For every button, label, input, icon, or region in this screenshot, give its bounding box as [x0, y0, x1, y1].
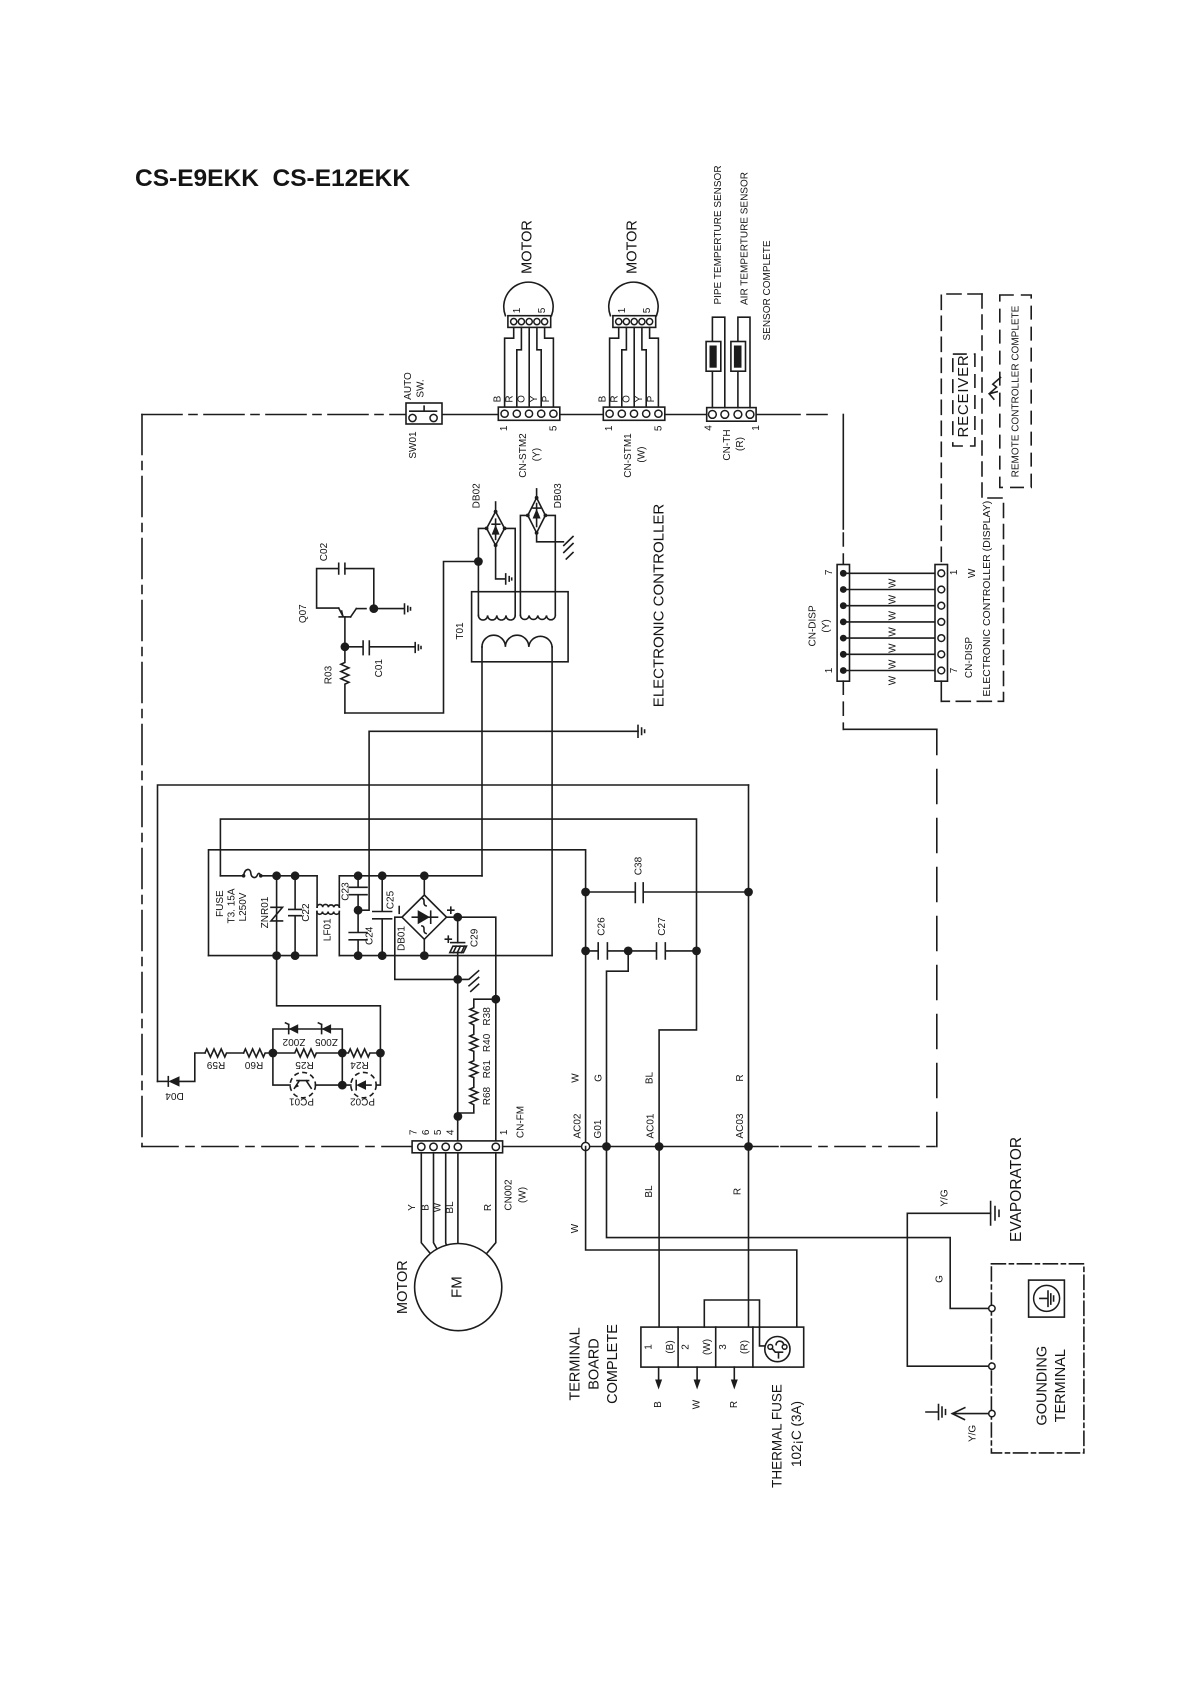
svg-text:R61: R61	[482, 1060, 493, 1079]
receiver feed dashed line from border	[842, 415, 844, 530]
wire C29 node down to CN-FM pin4	[457, 979, 459, 1141]
wire R (AC03 line) horizontal	[158, 785, 749, 1081]
earth symbol in square	[1029, 1280, 1065, 1317]
svg-text:5: 5	[433, 1129, 444, 1135]
node C27 right	[692, 947, 701, 956]
motor wires to CN-STM2	[505, 327, 554, 407]
svg-text:ELECTRONIC CONTROLLER (DISPLAY: ELECTRONIC CONTROLLER (DISPLAY)	[981, 501, 993, 697]
svg-text:G: G	[934, 1275, 945, 1283]
node mid (Z005/R24/PC01-PC02)	[338, 1049, 347, 1058]
svg-text:5: 5	[537, 307, 548, 313]
node C38 left	[581, 888, 590, 897]
wire loop pipe sensor	[712, 317, 724, 407]
bridge rectifier DB01	[402, 895, 447, 939]
svg-text:EVAPORATOR: EVAPORATOR	[1008, 1137, 1025, 1242]
node C25 bottom	[378, 951, 387, 960]
motor (stepper, above CN-STM2)	[504, 282, 553, 327]
dashed below CN-DISP (Y)	[842, 681, 844, 729]
line rail B	[339, 875, 482, 877]
terminal G01	[602, 1142, 611, 1151]
svg-text:CN-DISP: CN-DISP	[807, 605, 818, 646]
svg-text:DB03: DB03	[553, 483, 564, 508]
resistor R60	[244, 1049, 273, 1057]
svg-text:W: W	[888, 610, 899, 620]
svg-text:CN-STM1: CN-STM1	[623, 433, 634, 478]
Y/G wire with arrow to earth	[952, 1408, 988, 1420]
transformer T01	[472, 592, 568, 662]
svg-text:W: W	[433, 1202, 444, 1212]
svg-text:O: O	[517, 395, 528, 403]
DB02 top stub	[495, 502, 497, 512]
DB03 bottom to chassis	[537, 533, 564, 542]
svg-text:R03: R03	[324, 665, 335, 684]
svg-text:Y/G: Y/G	[968, 1425, 979, 1442]
electronic controller (display) dashed outline	[941, 294, 982, 565]
connector CN-TH	[707, 408, 756, 422]
fuse F01 (T3.15A L250V)	[242, 869, 263, 877]
arrow terminal 2	[694, 1367, 701, 1389]
wire W below bus to thermal fuse	[586, 1147, 797, 1346]
capacitor C26	[586, 943, 629, 959]
receiver dashed box	[953, 354, 975, 446]
svg-text:2: 2	[681, 1344, 692, 1350]
svg-text:7: 7	[409, 1129, 420, 1135]
ground (evaporator)	[991, 1202, 999, 1226]
wire ZNR bottom to detector network	[277, 956, 381, 1053]
DB01 plus rail	[447, 917, 496, 1141]
transistor Q07	[339, 608, 366, 642]
zener branch wires	[273, 1029, 342, 1053]
remote controller complete dashed box	[1000, 295, 1031, 487]
capacitor C01	[345, 641, 415, 655]
svg-text:(B): (B)	[665, 1340, 676, 1353]
svg-text:AUTO: AUTO	[403, 372, 414, 400]
node C25 top	[378, 871, 387, 880]
DB01 bottom stub	[420, 951, 429, 960]
electronic controller border left (dash-dot)	[141, 415, 143, 1147]
terminal board complete box	[641, 1327, 804, 1367]
svg-text:ELECTRONIC CONTROLLER: ELECTRONIC CONTROLLER	[651, 504, 668, 708]
svg-text:C02: C02	[319, 542, 330, 561]
node C24 bottom	[354, 951, 363, 960]
bus line (controller bottom edge solid part)	[503, 1146, 778, 1148]
DB03 side stubs to T01 secondary 2	[520, 515, 555, 615]
neutral rail A	[209, 955, 317, 957]
grounding terminal dash-dot box	[991, 1264, 1084, 1453]
chassis ground (DB03)	[564, 537, 573, 560]
svg-text:R59: R59	[206, 1059, 225, 1070]
node C22 bottom	[291, 951, 300, 960]
svg-text:1: 1	[499, 1129, 510, 1135]
wires CN-FM to fan motor	[421, 1153, 496, 1254]
svg-text:W: W	[888, 578, 899, 588]
arrow terminal 1	[655, 1367, 662, 1389]
wire G to grounding terminal	[607, 1147, 989, 1309]
wire W (AC02)	[209, 850, 586, 1147]
svg-text:R: R	[505, 395, 516, 402]
photocoupler PC02	[351, 1072, 376, 1097]
bridge rectifier DB02	[485, 510, 507, 547]
svg-text:P: P	[541, 395, 552, 402]
7 interconnect wires CN-DISP	[843, 573, 941, 670]
svg-text:P: P	[646, 395, 657, 402]
node C26 left	[581, 947, 590, 956]
junction node collector	[369, 604, 378, 613]
svg-text:L250V: L250V	[238, 892, 249, 921]
zener Z005	[318, 1023, 331, 1034]
resistor R59	[205, 1049, 244, 1057]
choke LF01	[317, 876, 339, 956]
svg-text:(Y): (Y)	[532, 448, 543, 461]
svg-text:COMPLETE: COMPLETE	[605, 1324, 621, 1404]
svg-text:T01: T01	[455, 622, 466, 640]
svg-text:C25: C25	[385, 890, 396, 909]
plus sign C29	[445, 936, 451, 942]
node C23/C24 mid	[354, 906, 363, 915]
svg-text:W: W	[888, 675, 899, 685]
node DB01 top	[420, 871, 429, 880]
svg-text:PIPE TEMPERTURE SENSOR: PIPE TEMPERTURE SENSOR	[713, 165, 724, 304]
svg-text:B: B	[597, 395, 608, 402]
wire R03 bottom to DB02 node	[345, 562, 474, 714]
DB02 side stubs to T01 secondary 1	[478, 528, 515, 615]
svg-text:C38: C38	[633, 856, 644, 875]
chassis wire from C23/C24 midpoint to ground	[358, 731, 638, 910]
svg-text:C29: C29	[469, 928, 480, 947]
svg-text:(W): (W)	[637, 447, 648, 463]
grounding terminal connector 3	[989, 1410, 995, 1416]
grounding terminal connector 2	[989, 1363, 995, 1369]
svg-text:R40: R40	[482, 1033, 493, 1052]
svg-text:BL: BL	[644, 1071, 655, 1084]
bridge rectifier DB03	[526, 496, 547, 535]
svg-text:PC02: PC02	[350, 1096, 375, 1107]
junction node on DB02 left leg	[474, 557, 483, 566]
svg-text:CN-STM2: CN-STM2	[518, 433, 529, 478]
thermal fuse jog wire to terminal 2	[704, 1300, 759, 1327]
capacitor C27	[628, 943, 696, 959]
ground (collector)	[374, 604, 411, 614]
svg-text:4: 4	[445, 1129, 456, 1135]
svg-text:B: B	[492, 395, 503, 402]
line rail with fuse F01	[220, 875, 243, 877]
line rail A after fuse	[261, 875, 317, 877]
svg-text:DB01: DB01	[397, 926, 408, 951]
svg-text:PC01: PC01	[289, 1096, 314, 1107]
node CN-FM pin4 junction	[454, 1112, 463, 1121]
arrow terminal 3	[731, 1367, 738, 1389]
svg-text:C27: C27	[657, 917, 668, 936]
node left (Z002/R25/PC01)	[269, 1049, 278, 1058]
svg-text:G: G	[593, 1074, 604, 1082]
connector CN-STM2	[498, 407, 560, 420]
svg-text:C23: C23	[340, 882, 351, 901]
wire G01 top jog	[607, 951, 629, 1147]
svg-text:(R): (R)	[739, 1340, 750, 1354]
svg-text:DB02: DB02	[472, 483, 483, 508]
svg-text:W: W	[888, 627, 899, 637]
svg-text:SW.: SW.	[416, 379, 427, 397]
svg-text:Y: Y	[529, 395, 540, 402]
svg-text:D04: D04	[165, 1090, 184, 1101]
svg-text:R: R	[483, 1204, 494, 1211]
electronic controller border top-right piece	[843, 728, 937, 730]
air temperture sensor element	[731, 342, 746, 372]
evaporator ground wire Y/G	[907, 1213, 990, 1366]
svg-text:CN-FM: CN-FM	[516, 1106, 527, 1138]
thermal fuse	[765, 1337, 790, 1362]
wire R below bus to terminal 3	[748, 1147, 750, 1328]
photocoupler PC02 wires	[342, 1053, 380, 1085]
resistor chain R38 R40 R61 R68	[458, 999, 496, 1116]
svg-text:THERMAL FUSE: THERMAL FUSE	[770, 1384, 785, 1488]
stub below right connector	[940, 681, 942, 701]
resistor R25	[273, 1049, 342, 1057]
svg-text:B: B	[653, 1401, 664, 1408]
capacitor C38	[586, 883, 749, 903]
node R38 chain top	[491, 995, 500, 1004]
svg-text:5: 5	[642, 307, 653, 313]
svg-text:3: 3	[718, 1344, 729, 1350]
ground (DB02)	[506, 574, 512, 584]
svg-text:1: 1	[949, 569, 960, 575]
svg-text:TERMINAL: TERMINAL	[568, 1327, 584, 1400]
svg-text:R: R	[733, 1188, 744, 1195]
plus sign DB01	[448, 907, 454, 913]
svg-text:4: 4	[704, 425, 715, 431]
svg-text:R: R	[729, 1401, 740, 1408]
wire C02 left to Q07 emitter	[317, 569, 339, 609]
connector CN-DISP right (display board)	[935, 565, 948, 682]
svg-text:5: 5	[548, 425, 559, 431]
connector CN-STM1	[603, 407, 665, 420]
svg-text:REMOTE CONTROLLER COMPLETE: REMOTE CONTROLLER COMPLETE	[1010, 305, 1021, 477]
svg-text:Y/G: Y/G	[940, 1189, 951, 1206]
node C26 right	[624, 947, 633, 956]
svg-text:RECEIVER: RECEIVER	[955, 354, 972, 437]
terminal AC02 (open)	[582, 1142, 590, 1150]
chassis ground (C29 node)	[458, 971, 479, 992]
svg-text:(W): (W)	[702, 1339, 713, 1355]
svg-text:Y: Y	[634, 395, 645, 402]
svg-text:(R): (R)	[735, 437, 746, 451]
svg-text:FUSE: FUSE	[215, 890, 226, 917]
svg-text:CN002: CN002	[503, 1179, 514, 1211]
svg-text:C22: C22	[301, 903, 312, 922]
diode D04	[158, 1053, 206, 1087]
electronic controller border bottom right (dash-dot)	[781, 1146, 937, 1148]
svg-text:BL: BL	[445, 1201, 456, 1214]
connector CN-DISP (Y) left	[837, 565, 849, 682]
svg-text:CS-E9EKK CS-E12EKK: CS-E9EKK CS-E12EKK	[135, 165, 410, 192]
electronic controller border top solid segments between connectors	[442, 414, 827, 416]
electronic controller border bottom left (dash-dot)	[142, 1146, 412, 1148]
svg-text:1: 1	[512, 307, 523, 313]
IR signal zigzag arrow	[989, 378, 1000, 400]
svg-text:1: 1	[824, 667, 835, 673]
junction node base	[341, 642, 350, 651]
svg-text:R24: R24	[350, 1059, 369, 1070]
svg-text:GOUNDING: GOUNDING	[1035, 1346, 1051, 1426]
photocoupler PC01 wires	[273, 1053, 342, 1085]
svg-text:R38: R38	[482, 1007, 493, 1026]
svg-text:1: 1	[499, 425, 510, 431]
ground (mid chassis)	[638, 725, 645, 737]
svg-text:6: 6	[421, 1129, 432, 1135]
electronic controller border right (dashed)	[936, 729, 938, 1146]
svg-text:AC01: AC01	[646, 1113, 657, 1138]
svg-text:O: O	[622, 395, 633, 403]
svg-text:102¡C (3A): 102¡C (3A)	[789, 1401, 804, 1467]
node DB01 plus	[453, 913, 462, 922]
motor (stepper, above CN-STM1)	[609, 282, 658, 327]
svg-text:LF01: LF01	[323, 918, 334, 941]
svg-text:T3. 15A: T3. 15A	[227, 888, 238, 923]
node ZNR01 top	[272, 871, 281, 880]
svg-text:7: 7	[824, 569, 835, 575]
svg-text:Z005: Z005	[315, 1036, 338, 1047]
DB01 top stub	[423, 876, 425, 895]
svg-text:B: B	[420, 1204, 431, 1211]
svg-text:R25: R25	[295, 1059, 314, 1070]
svg-text:AC03: AC03	[735, 1113, 746, 1138]
node C29 bottom / chassis	[453, 975, 462, 984]
svg-text:W: W	[888, 594, 899, 604]
capacitor C29 (electrolytic)	[450, 917, 467, 979]
svg-text:R: R	[735, 1074, 746, 1081]
svg-text:W: W	[570, 1073, 581, 1083]
capacitor C25	[373, 876, 392, 956]
pipe temperture sensor element	[706, 342, 721, 372]
wire C02 right to collector node	[345, 569, 374, 609]
svg-text:5: 5	[653, 425, 664, 431]
DB01 minus wire to chassis node	[395, 917, 454, 979]
svg-text:CN-DISP: CN-DISP	[964, 637, 975, 678]
node C22 top	[291, 871, 300, 880]
ground (Y/G bottom)	[926, 1405, 946, 1420]
svg-text:1: 1	[617, 307, 628, 313]
minus sign DB01	[398, 907, 400, 914]
wire loop air sensor	[738, 317, 750, 407]
resistor R24	[342, 1049, 380, 1057]
neutral rail B	[339, 955, 552, 957]
switch SW01 (AUTO SW.)	[406, 403, 442, 424]
svg-text:Q07: Q07	[298, 604, 309, 623]
capacitor C23	[349, 876, 367, 910]
svg-text:MOTOR: MOTOR	[519, 220, 535, 274]
svg-text:SENSOR COMPLETE: SENSOR COMPLETE	[762, 240, 773, 340]
node ZNR01 bottom	[272, 951, 281, 960]
svg-text:AC02: AC02	[573, 1113, 584, 1138]
svg-text:BOARD: BOARD	[586, 1338, 602, 1390]
svg-text:7: 7	[949, 667, 960, 673]
svg-text:C01: C01	[374, 659, 385, 678]
DB03 top stub	[536, 489, 538, 498]
svg-text:SW01: SW01	[408, 431, 419, 459]
svg-text:1: 1	[751, 425, 762, 431]
grounding terminal connector 1	[989, 1305, 995, 1311]
T01 primary left wire down to line rail	[481, 647, 483, 876]
svg-text:MOTOR: MOTOR	[395, 1260, 411, 1314]
resistor R03	[341, 647, 349, 713]
svg-text:W: W	[967, 568, 978, 578]
varistor ZNR01	[271, 876, 283, 956]
svg-text:BL: BL	[644, 1185, 655, 1198]
capacitor C02	[339, 563, 345, 574]
photocoupler PC01	[290, 1072, 315, 1097]
svg-text:ZNR01: ZNR01	[260, 896, 271, 928]
svg-text:C24: C24	[364, 926, 375, 945]
zener Z002	[286, 1023, 299, 1034]
motor wires to CN-STM1	[610, 327, 659, 407]
svg-text:(Y): (Y)	[821, 619, 832, 632]
ground (C01)	[415, 643, 421, 653]
svg-text:1: 1	[643, 1344, 654, 1350]
node C23 top	[354, 871, 363, 880]
svg-text:R68: R68	[482, 1086, 493, 1105]
connector CN-FM	[412, 1141, 503, 1153]
svg-text:R60: R60	[244, 1059, 263, 1070]
capacitor C22	[289, 876, 302, 956]
DB02 bottom to ground	[496, 545, 506, 579]
svg-text:CN-TH: CN-TH	[722, 429, 733, 460]
svg-text:R: R	[610, 395, 621, 402]
node right column	[376, 1049, 385, 1058]
svg-text:C26: C26	[596, 917, 607, 936]
svg-text:W: W	[692, 1399, 703, 1409]
T01 primary right wire down to neutral rail	[551, 647, 553, 956]
fan motor FM	[415, 1244, 502, 1331]
svg-text:W: W	[888, 659, 899, 669]
svg-text:G01: G01	[593, 1119, 604, 1138]
node PC01/PC02	[338, 1081, 347, 1090]
node C38 right	[744, 888, 753, 897]
svg-text:(W): (W)	[517, 1187, 528, 1203]
svg-text:Z002: Z002	[282, 1036, 305, 1047]
thermal fuse in-box wires	[760, 1327, 767, 1346]
terminal AC03	[744, 1142, 753, 1151]
capacitor C24	[349, 910, 367, 955]
terminal AC01	[655, 1142, 664, 1151]
wire BL below bus to terminal 1	[658, 1147, 660, 1328]
svg-text:TERMINAL: TERMINAL	[1053, 1349, 1069, 1422]
svg-text:W: W	[888, 643, 899, 653]
svg-text:AIR TEMPERTURE SENSOR: AIR TEMPERTURE SENSOR	[739, 172, 750, 305]
svg-text:W: W	[570, 1223, 581, 1233]
svg-text:1: 1	[604, 425, 615, 431]
wire BL (AC01)	[220, 819, 696, 1146]
electronic controller border top (dash-dot)	[142, 414, 406, 416]
wire AC03 vertical	[748, 785, 750, 1147]
svg-text:FM: FM	[449, 1276, 466, 1298]
svg-text:MOTOR: MOTOR	[624, 220, 640, 274]
svg-text:Y: Y	[407, 1204, 418, 1211]
